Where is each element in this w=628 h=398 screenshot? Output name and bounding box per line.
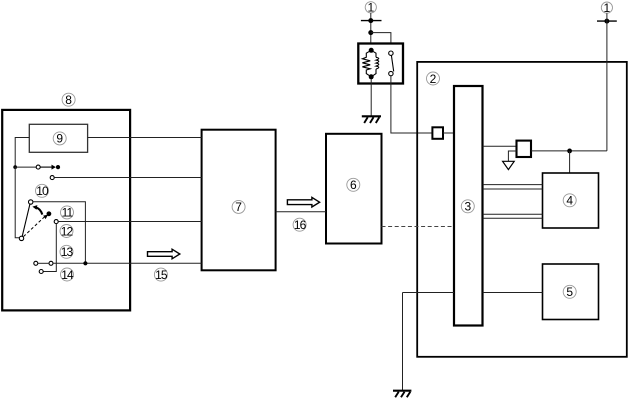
ground (below relay) bbox=[362, 116, 381, 123]
wire box3 to connector square 2 bbox=[483, 145, 517, 147]
box U4 bbox=[543, 173, 599, 228]
wire pair box3-box4 upper bbox=[483, 185, 543, 189]
svg-text:16: 16 bbox=[294, 218, 307, 232]
wire down to bottom ground bbox=[402, 293, 404, 391]
node 1 (left battery feed) label bbox=[365, 1, 376, 15]
connector square 2 bbox=[517, 141, 532, 157]
signal arrow 15 bbox=[148, 249, 180, 259]
label 11 bbox=[61, 206, 74, 220]
switch S10 alternate blade (dashed) bbox=[24, 211, 52, 236]
relay coil top pin dot bbox=[369, 48, 374, 53]
label 13 bbox=[60, 245, 73, 259]
svg-text:13: 13 bbox=[61, 245, 74, 259]
label 4 bbox=[563, 194, 576, 208]
wire from junction to relay switch side bbox=[371, 33, 391, 44]
relay switch blade bbox=[391, 55, 393, 71]
label 10 bbox=[36, 184, 49, 198]
box U2 (control module boundary) bbox=[417, 62, 627, 357]
power feed bar with dot (right) bbox=[597, 19, 617, 24]
switch S10 top contact bbox=[29, 200, 33, 204]
label 3 bbox=[461, 200, 474, 214]
connector square (relay line) bbox=[432, 127, 443, 139]
junction dot above box 4 bbox=[567, 149, 572, 154]
svg-text:12: 12 bbox=[61, 224, 74, 238]
connector pair circles on output wire bbox=[34, 261, 53, 265]
box U5 bbox=[543, 264, 599, 320]
junction dot left bbox=[13, 165, 17, 169]
label 6 bbox=[347, 178, 360, 192]
switch S10 motion arrow bbox=[32, 205, 42, 215]
wire S10 top contact right and down bbox=[33, 202, 86, 264]
label 9 bbox=[53, 132, 66, 146]
svg-text:3: 3 bbox=[464, 200, 471, 214]
contact open circle bbox=[36, 165, 40, 169]
svg-text:15: 15 bbox=[155, 268, 168, 282]
svg-text:4: 4 bbox=[566, 194, 573, 208]
svg-text:6: 6 bbox=[350, 178, 357, 192]
switch S10 blade bbox=[22, 204, 30, 236]
svg-text:14: 14 bbox=[61, 268, 74, 282]
label 2 bbox=[427, 72, 440, 86]
wire junction down to switch common bbox=[15, 167, 19, 238]
node 1 (right battery feed) label bbox=[601, 1, 612, 15]
signal arrow 16 bbox=[287, 197, 319, 207]
box U6 bbox=[326, 134, 382, 244]
switch S10 common contact bbox=[19, 236, 23, 240]
svg-text:8: 8 bbox=[65, 93, 72, 107]
label 7 bbox=[232, 200, 245, 214]
wire row2 to box7 bbox=[54, 177, 201, 179]
junction dot on output wire bbox=[83, 261, 87, 265]
wire pair box3-box4 lower bbox=[483, 214, 543, 218]
label 15 bbox=[154, 268, 167, 282]
wire contact 11 to box7 bbox=[58, 221, 201, 223]
wire connector 2 to node 1 right feed bbox=[531, 150, 607, 152]
relay box bbox=[358, 44, 403, 84]
wire box7 to box6 bbox=[276, 211, 326, 213]
svg-text:11: 11 bbox=[62, 206, 74, 220]
relay switch bottom contact bbox=[389, 71, 393, 75]
label 5 bbox=[563, 285, 576, 299]
box U7 bbox=[202, 130, 276, 271]
wire relay switch down and right to connector bbox=[391, 76, 433, 133]
wire from node 1 down to relay bbox=[370, 13, 372, 44]
wire box9 to box7 bbox=[88, 137, 202, 139]
junction dot below feed bbox=[368, 30, 373, 35]
label 8 bbox=[62, 93, 75, 107]
label 16 bbox=[293, 218, 306, 232]
relay coil resistor (left branch zigzag) bbox=[362, 50, 371, 77]
relay coil winding (right branch) bbox=[371, 50, 379, 77]
box U9 (inner block) bbox=[29, 124, 87, 152]
contact open circle row2 bbox=[50, 176, 54, 180]
svg-text:2: 2 bbox=[430, 72, 437, 86]
svg-text:1: 1 bbox=[367, 1, 374, 15]
svg-text:1: 1 bbox=[604, 1, 611, 15]
contact arrow to dot bbox=[40, 165, 60, 170]
wire connector to box 3 bbox=[443, 132, 454, 134]
svg-text:9: 9 bbox=[56, 132, 63, 146]
output wire to box7 with junction bbox=[53, 262, 202, 264]
shield ground arrow from connector bbox=[503, 151, 517, 170]
contact 14 circle bbox=[39, 270, 43, 274]
wire right feed down bbox=[606, 13, 608, 151]
wire relay coil to ground bbox=[370, 79, 372, 116]
power feed bar with dot bbox=[361, 18, 382, 23]
label 12 bbox=[60, 224, 73, 238]
wire box3 to box5 bbox=[483, 292, 543, 294]
relay switch top contact bbox=[389, 51, 393, 55]
wire junction down to box 4 bbox=[569, 151, 571, 173]
box U3 (internal tall block) bbox=[454, 86, 483, 326]
dashed wire box6 to box3 bbox=[382, 226, 455, 228]
svg-text:10: 10 bbox=[36, 184, 49, 198]
wire box9 left down bbox=[15, 138, 29, 168]
wire junction to contact arrow bbox=[15, 166, 36, 168]
contact 11 circle bbox=[54, 220, 58, 224]
label 14 bbox=[61, 268, 74, 282]
relay coil bottom pin dot bbox=[369, 74, 374, 79]
box U8 (switch assembly boundary) bbox=[2, 110, 130, 311]
svg-text:7: 7 bbox=[235, 200, 242, 214]
svg-text:5: 5 bbox=[566, 285, 573, 299]
wire contact 11 down to contact 14 bbox=[43, 224, 56, 272]
wire box3 left to ground drop bbox=[403, 292, 455, 294]
ground (bottom) bbox=[393, 391, 411, 398]
